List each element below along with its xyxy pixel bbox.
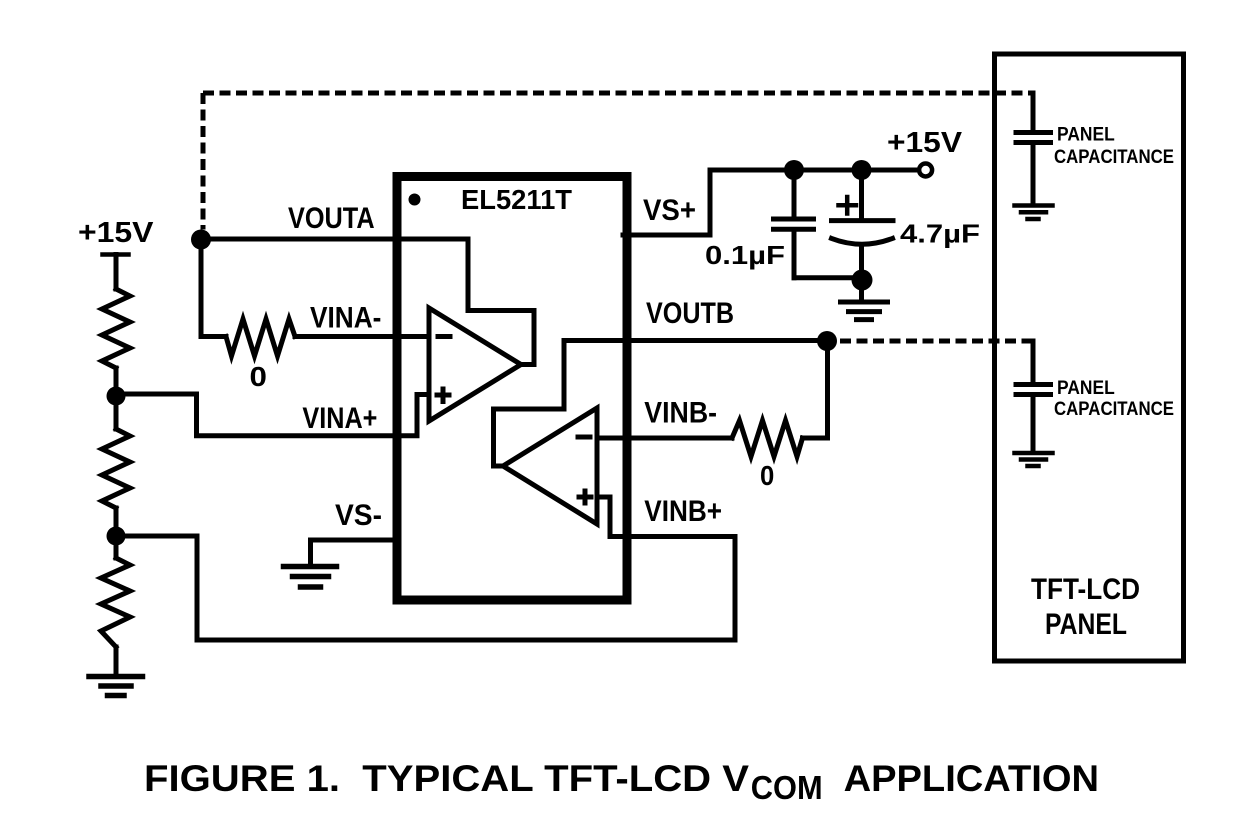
svg-text:APPLICATION: APPLICATION (844, 758, 1099, 799)
svg-text:VOUTA: VOUTA (288, 202, 375, 235)
svg-text:+15V: +15V (887, 127, 963, 159)
svg-text:0: 0 (250, 361, 267, 392)
svg-text:COM: COM (751, 769, 823, 806)
svg-text:VINA+: VINA+ (302, 402, 377, 435)
svg-text:PANEL: PANEL (1045, 608, 1127, 641)
svg-text:PANEL: PANEL (1057, 125, 1115, 146)
svg-text:VINA-: VINA- (310, 302, 381, 335)
svg-text:VINB-: VINB- (644, 397, 717, 430)
svg-text:TFT-LCD: TFT-LCD (1031, 573, 1140, 606)
svg-text:VINB+: VINB+ (644, 495, 722, 528)
svg-text:CAPACITANCE: CAPACITANCE (1054, 399, 1174, 420)
svg-text:FIGURE 1. TYPICAL TFT-LCD V: FIGURE 1. TYPICAL TFT-LCD V (144, 758, 749, 799)
svg-text:0: 0 (760, 460, 774, 491)
svg-text:VS-: VS- (335, 499, 382, 532)
svg-text:4.7µF: 4.7µF (900, 219, 980, 249)
svg-text:VOUTB: VOUTB (646, 297, 734, 330)
svg-text:EL5211T: EL5211T (461, 184, 572, 215)
svg-text:0.1µF: 0.1µF (705, 240, 785, 270)
svg-text:VS+: VS+ (643, 194, 696, 227)
svg-text:CAPACITANCE: CAPACITANCE (1054, 147, 1174, 168)
svg-text:+15V: +15V (78, 217, 154, 249)
svg-text:PANEL: PANEL (1057, 378, 1115, 399)
